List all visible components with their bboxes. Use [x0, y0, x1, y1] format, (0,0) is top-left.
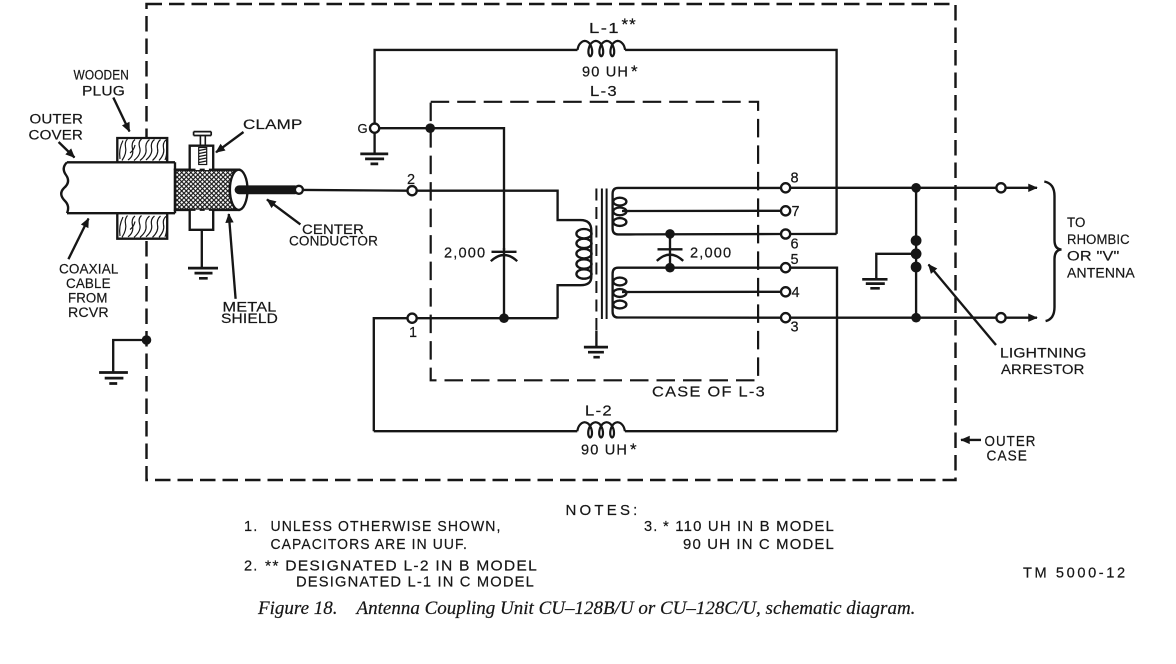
- svg-text:3: 3: [791, 320, 799, 336]
- svg-text:CASE: CASE: [987, 449, 1029, 465]
- wood grain lower: [120, 216, 167, 238]
- svg-text:90 UH IN C MODEL: 90 UH IN C MODEL: [683, 537, 835, 553]
- arrow WOODEN PLUG: [113, 98, 129, 132]
- arrow to arrestor: [929, 265, 997, 346]
- wood grain upper: [120, 139, 167, 161]
- wire: terminal 1 line: [374, 318, 558, 431]
- wire: terminal 7: [630, 210, 781, 213]
- svg-text:TO: TO: [1067, 215, 1086, 231]
- capacitor C-right 2,000: [657, 229, 732, 272]
- wire: arrestor ground: [876, 254, 916, 279]
- wire: L1 to right drop: [625, 50, 837, 234]
- cable break (wavy left end): [61, 162, 68, 213]
- wooden plug upper block: [117, 138, 167, 162]
- svg-text:RCVR: RCVR: [68, 305, 109, 321]
- outer cover end steps: [174, 162, 176, 213]
- svg-text:2,000: 2,000: [444, 246, 486, 262]
- svg-text:G: G: [358, 121, 368, 136]
- svg-text:3.: 3.: [644, 519, 658, 535]
- svg-text:L-3: L-3: [590, 84, 618, 100]
- arrow CENTER CONDUCTOR: [267, 200, 300, 225]
- wire: terminal 5 to L2 drop: [630, 268, 837, 432]
- terminal 1: [374, 314, 558, 432]
- ground (arrestor): [862, 279, 887, 288]
- ground (node G): [373, 133, 375, 153]
- svg-text:* 110 UH IN B MODEL: * 110 UH IN B MODEL: [663, 519, 835, 535]
- svg-text:L-2: L-2: [585, 404, 613, 420]
- clamp screw T-head: [194, 132, 212, 136]
- svg-text:CONDUCTOR: CONDUCTOR: [289, 234, 378, 250]
- svg-text:UNLESS OTHERWISE SHOWN,: UNLESS OTHERWISE SHOWN,: [271, 519, 502, 535]
- junction on case border: [142, 335, 152, 345]
- svg-text:90 UH: 90 UH: [581, 443, 628, 459]
- shield end face (cylinder cap): [230, 170, 248, 210]
- svg-text:ANTENNA: ANTENNA: [1067, 266, 1135, 282]
- wooden plug upper block hidden edge (dashed): [117, 161, 167, 163]
- arrow out top: [1006, 187, 1037, 189]
- cable body mask: [61, 162, 175, 213]
- arrow out bottom: [1006, 317, 1037, 319]
- svg-text:**: **: [622, 15, 637, 34]
- svg-text:OUTER: OUTER: [30, 112, 84, 128]
- brace: [1044, 182, 1061, 322]
- ground (outer case): [99, 373, 128, 384]
- wire: terminal 6 to L1 drop: [630, 233, 837, 236]
- electrostatic shield (dashed): [595, 189, 597, 331]
- svg-text:5: 5: [791, 252, 799, 268]
- secondary top winding: [613, 188, 630, 235]
- wire: coil to right riser: [625, 430, 837, 432]
- svg-text:RHOMBIC: RHOMBIC: [1067, 232, 1130, 248]
- svg-text:OR "V": OR "V": [1067, 249, 1120, 265]
- center conductor (black rod): [239, 185, 295, 194]
- svg-text:COVER: COVER: [29, 128, 84, 144]
- wire: G up and across top: [375, 50, 578, 124]
- outer case dashed border: [147, 4, 956, 480]
- svg-text:L-1: L-1: [589, 21, 620, 37]
- svg-text:ARRESTOR: ARRESTOR: [1001, 362, 1085, 378]
- wire: G to shield-can junction: [379, 128, 504, 250]
- arrow METAL SHIELD: [229, 214, 236, 299]
- wire: terminal 4: [630, 291, 781, 294]
- svg-text:1.: 1.: [244, 519, 258, 535]
- svg-text:6: 6: [791, 237, 799, 253]
- wooden plug lower block: [117, 213, 167, 239]
- wire: left riser to coil: [374, 430, 578, 432]
- clamp body: [190, 146, 214, 170]
- inductor L1: [578, 41, 626, 56]
- svg-text:WOODEN: WOODEN: [74, 68, 130, 84]
- svg-text:NOTES:: NOTES:: [566, 502, 641, 519]
- capacitor C-left 2,000: [444, 246, 517, 324]
- primary winding: [558, 220, 592, 318]
- inductor L2: [577, 422, 625, 437]
- terminal 2: [407, 172, 581, 220]
- svg-text:2.: 2.: [244, 559, 258, 575]
- secondary bottom winding: [613, 268, 630, 318]
- svg-text:4: 4: [792, 285, 800, 301]
- wire: conductor to terminal 2: [304, 189, 408, 192]
- svg-text:90 UH: 90 UH: [582, 65, 629, 81]
- wire: lug to ground: [201, 230, 203, 267]
- svg-text:TM 5000-12: TM 5000-12: [1023, 566, 1128, 582]
- arrow CLAMP: [216, 132, 244, 152]
- svg-text:*: *: [631, 62, 638, 81]
- shield bottom lug: [190, 210, 214, 230]
- arrow OUTER COVER: [59, 142, 75, 158]
- wire: terminal 3 to arrestor: [630, 316, 996, 319]
- svg-text:2,000: 2,000: [690, 246, 732, 262]
- shield ground stub: [595, 331, 597, 347]
- svg-text:8: 8: [791, 171, 799, 187]
- coaxial cable outer cover body: [67, 162, 175, 213]
- node G: [358, 121, 505, 250]
- svg-text:DESIGNATED L-1 IN C MODEL: DESIGNATED L-1 IN C MODEL: [296, 575, 535, 591]
- svg-text:Figure 18. Antenna Coupling U: Figure 18. Antenna Coupling Unit CU–128B…: [257, 598, 915, 619]
- junction on L-3 case: [425, 123, 435, 133]
- svg-text:CLAMP: CLAMP: [243, 117, 303, 133]
- arrow COAXIAL CABLE: [68, 219, 88, 260]
- svg-text:CAPACITORS ARE IN UUF.: CAPACITORS ARE IN UUF.: [271, 537, 469, 553]
- svg-text:2: 2: [407, 172, 415, 188]
- wooden plug lower block hidden edge (dashed): [117, 212, 167, 214]
- svg-text:LIGHTNING: LIGHTNING: [1000, 346, 1087, 362]
- svg-text:PLUG: PLUG: [82, 84, 125, 100]
- clamp screw shank with threads: [199, 148, 207, 165]
- wire: winding to terminal 8 and on to arrestor: [630, 187, 996, 189]
- svg-text:*: *: [630, 440, 637, 459]
- svg-text:SHIELD: SHIELD: [221, 311, 278, 327]
- ground (metal shield): [188, 268, 218, 278]
- label OUTER CASE: [961, 434, 1037, 465]
- svg-text:CASE OF L-3: CASE OF L-3: [652, 385, 766, 401]
- clamp screw shaft: [200, 136, 205, 146]
- core: [602, 189, 607, 320]
- svg-text:1: 1: [409, 325, 417, 341]
- conductor tip bead: [295, 186, 303, 194]
- wire: case ground tie at left border: [113, 340, 146, 372]
- metal shield braid (cross-hatched): [175, 170, 239, 210]
- svg-text:7: 7: [792, 204, 800, 220]
- svg-text:** DESIGNATED L-2 IN B MODEL: ** DESIGNATED L-2 IN B MODEL: [265, 559, 538, 575]
- wire: terminal 2 to primary top: [417, 191, 581, 220]
